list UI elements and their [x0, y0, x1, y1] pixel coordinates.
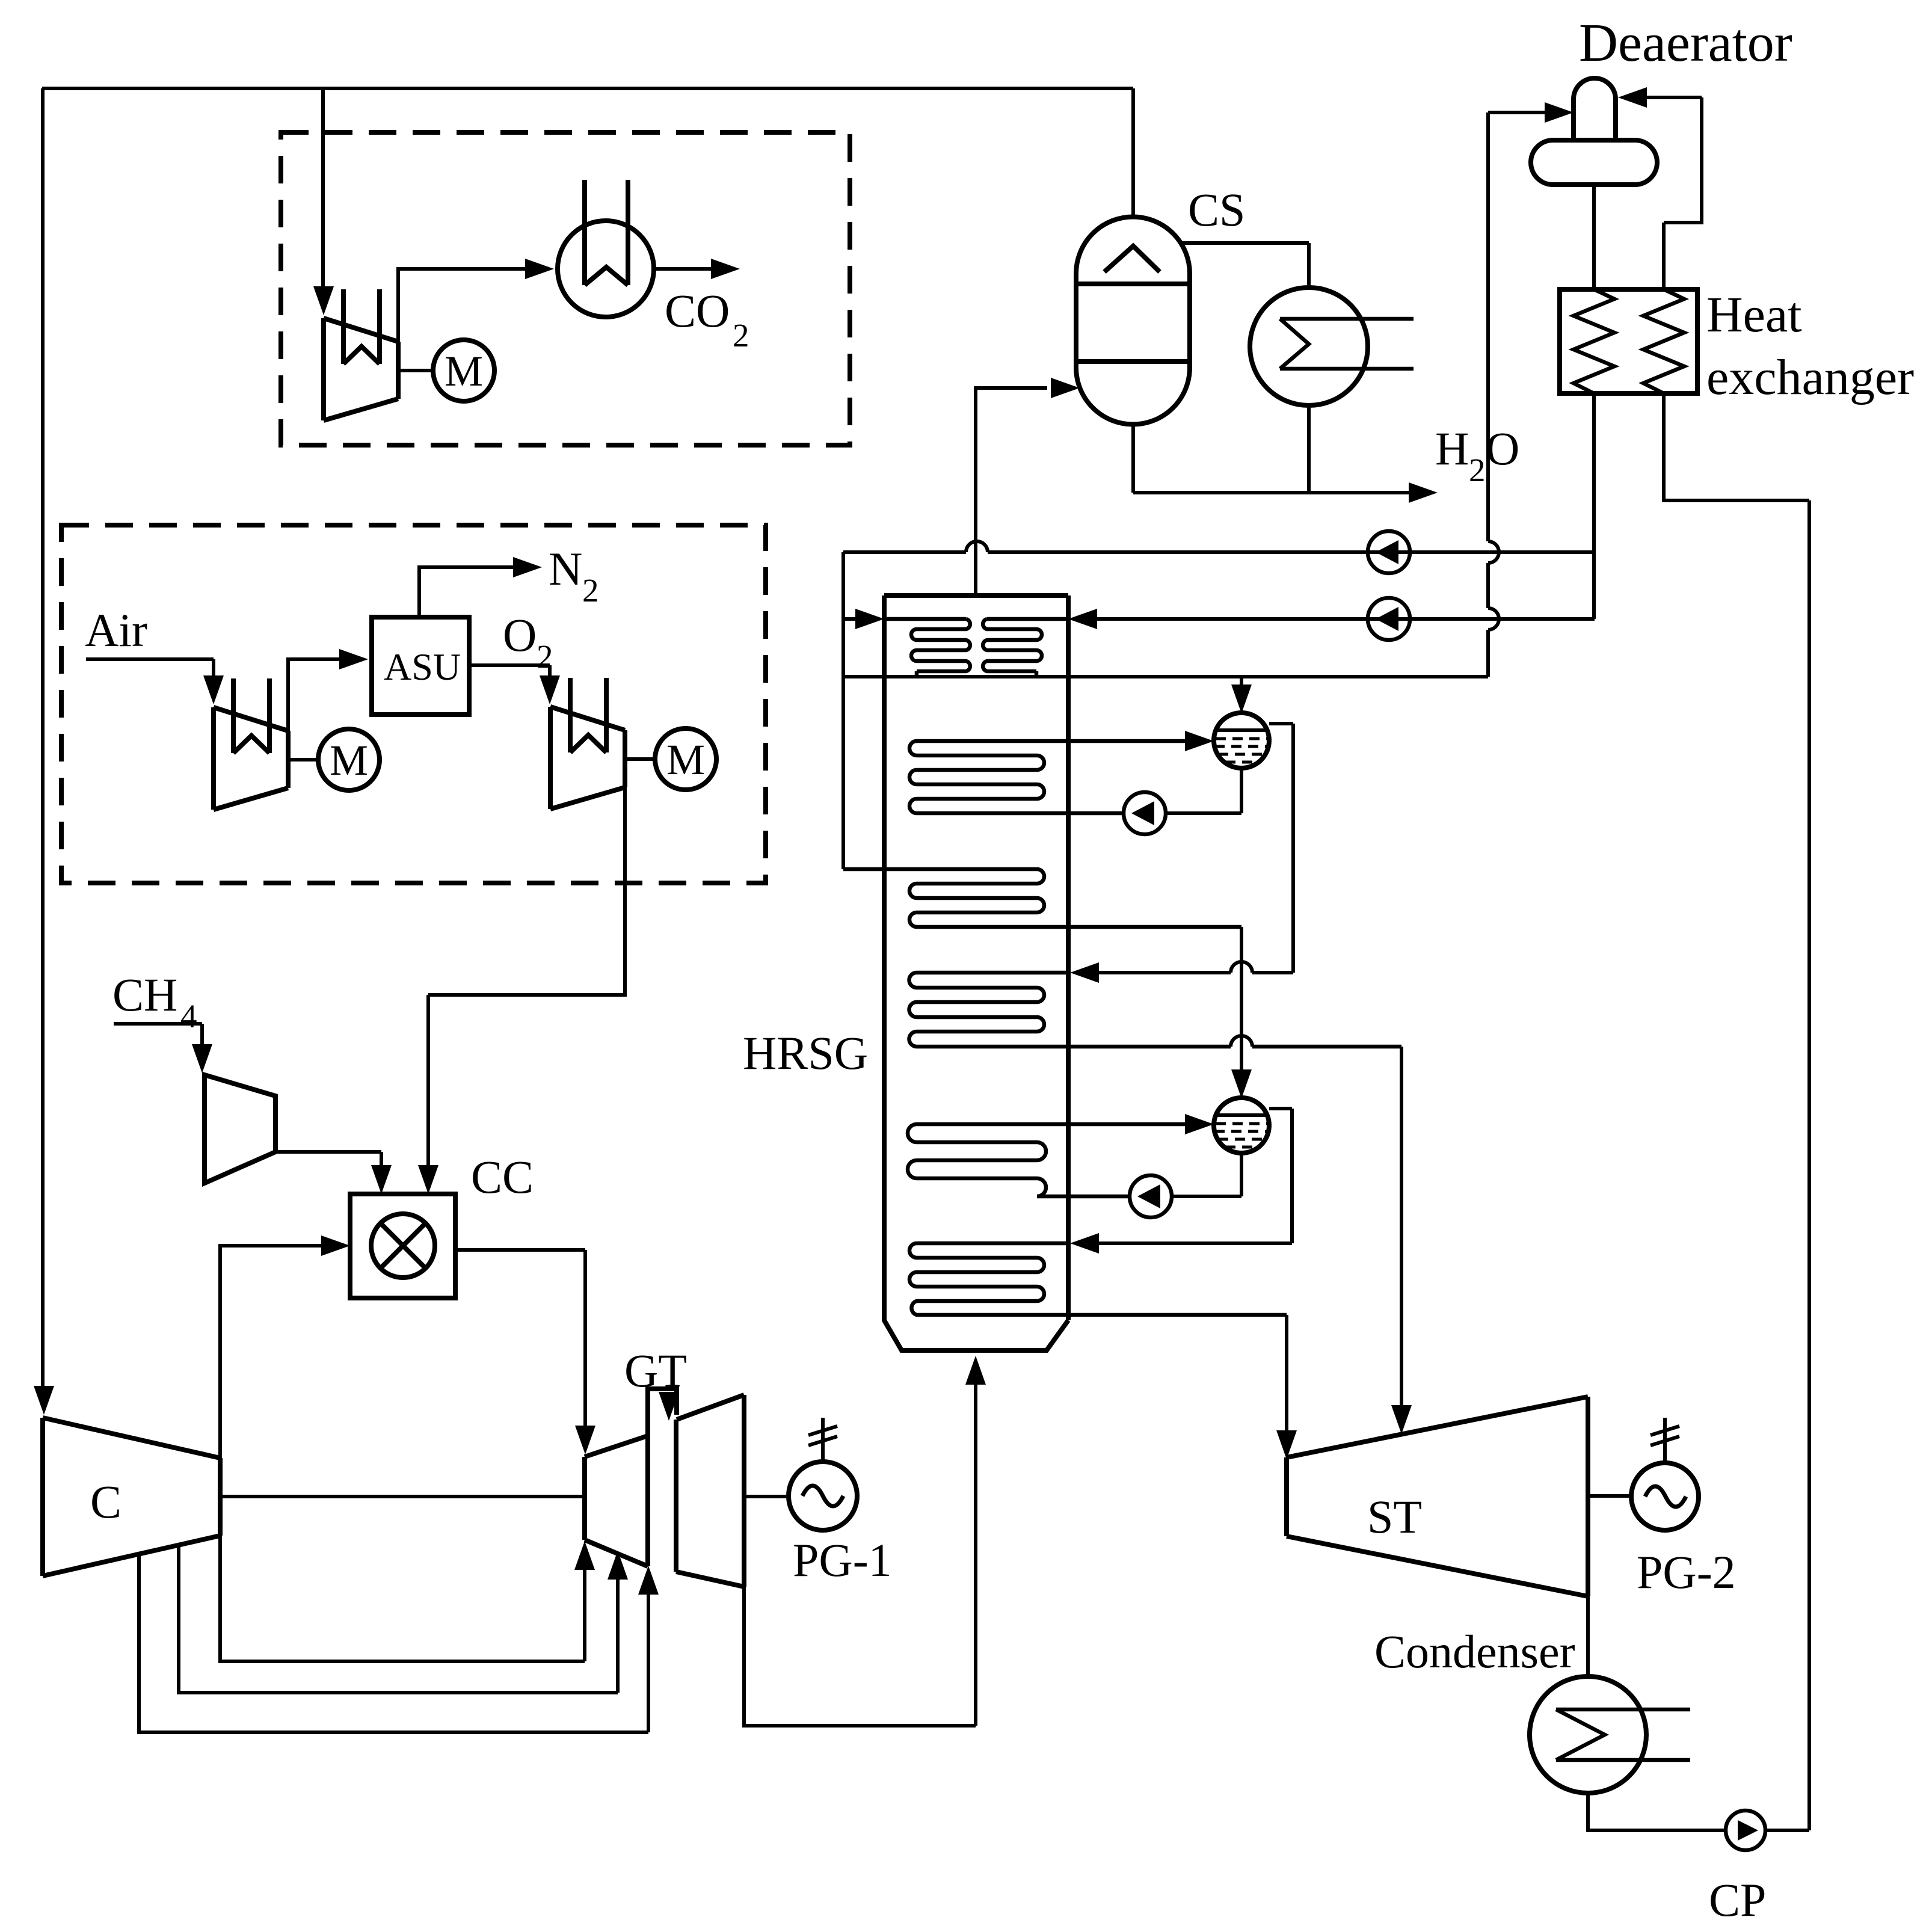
turbine GT crossover neck: [648, 1389, 677, 1436]
pump LP circulation: [1130, 1175, 1172, 1217]
cooler CS condensing cooler: [1250, 288, 1368, 405]
shaft ST to PG-2: [1588, 1494, 1631, 1498]
chevron CS demister: [1104, 246, 1160, 272]
coil LP evaporator: [908, 1124, 1185, 1196]
wire LP drum downcomer: [1172, 1153, 1241, 1196]
svg-text:M: M: [666, 736, 705, 784]
boiler HRSG shell: [884, 595, 1068, 1350]
drum HP steam drum: [1214, 713, 1269, 768]
wire steam line to ST: [1400, 1047, 1403, 1405]
svg-text:2: 2: [1469, 452, 1486, 488]
svg-text:ASU: ASU: [384, 645, 461, 688]
wire HX outlet to HRSG inlet left: [843, 617, 855, 621]
wire condensate riser to heat exchanger: [1765, 500, 1809, 1830]
wire HX right coil outlet to condensate riser: [1664, 393, 1809, 500]
wire HP drum downcomer: [1166, 768, 1241, 813]
heat exchanger box: [1560, 289, 1697, 393]
wire GT cooling line 3 from C: [139, 1554, 648, 1732]
compressor O2: [550, 707, 625, 809]
coil LP superheater: [909, 1243, 1287, 1315]
wire O2 compressor outlet to CC: [428, 787, 625, 1165]
generator PG-2: [1631, 1463, 1699, 1530]
turbine ST: [1287, 1397, 1588, 1596]
svg-text:2: 2: [733, 317, 749, 354]
wire GT cooling line 2 from C: [179, 1545, 618, 1693]
wire CO2 product outlet: [654, 267, 711, 271]
wire top recycle header: [42, 87, 1133, 90]
compressor C: [43, 1418, 220, 1576]
compressor fuel: [205, 1075, 275, 1183]
motor M of air compressor: [318, 729, 380, 790]
pump feedwater lower: [1368, 598, 1410, 640]
shaft CO2 compressor: [398, 369, 433, 372]
wire economizer feed drop: [841, 552, 845, 869]
motor M of O2 compressor: [655, 728, 716, 790]
wire air inlet: [86, 659, 214, 677]
hump on steam line to ST: [1231, 1036, 1252, 1047]
coil heat exchanger right: [1643, 289, 1684, 393]
dashed box ASU unit: [61, 525, 766, 883]
wire LP drum steam outlet to LP superheater: [1099, 1109, 1292, 1243]
svg-text:CO: CO: [665, 285, 730, 337]
svg-text:N: N: [549, 543, 582, 595]
wire HP drum steam outlet to LP superheater: [1099, 724, 1293, 973]
svg-text:PG-1: PG-1: [793, 1534, 892, 1586]
wire LP drum feed: [1240, 927, 1243, 1076]
svg-text:Condenser: Condenser: [1374, 1625, 1575, 1678]
cooler CO2 gas cooler: [558, 221, 654, 317]
condenser: [1530, 1676, 1646, 1793]
wire deaerator feed riser: [1486, 112, 1490, 677]
wire HX left coil outlet down: [1594, 393, 1595, 619]
svg-text:Deaerator: Deaerator: [1579, 13, 1792, 73]
wire HP drum feed from header: [1240, 677, 1243, 686]
wire N2 outlet: [419, 567, 513, 617]
shaft GT to PG-1: [744, 1495, 789, 1498]
wire HX outlet to HRSG inlet right: [1097, 617, 1595, 621]
hop deaerator riser over lower line: [1488, 608, 1499, 630]
shaft O2 compressor: [625, 757, 655, 761]
wire CS cooler drain: [1307, 405, 1311, 493]
vessel CS separator: [1076, 217, 1190, 424]
vessel deaerator: [1531, 140, 1657, 185]
svg-text:H: H: [1435, 422, 1469, 475]
turbine GT low pressure section: [676, 1395, 744, 1587]
wire branch to CO2 compressor: [321, 88, 325, 288]
svg-text:M: M: [445, 347, 483, 395]
wire heat exchanger right coil top jog: [1664, 97, 1702, 289]
wire deaerator feed header: [843, 675, 1488, 678]
wire compressor C discharge to CC: [220, 1246, 321, 1458]
wire CS top recycle riser: [1131, 88, 1135, 217]
svg-text:ST: ST: [1367, 1491, 1422, 1543]
wire GT exhaust to HRSG: [744, 1385, 976, 1726]
coil economizer left bank: [884, 619, 970, 677]
wire CC outlet to GT: [455, 1250, 585, 1426]
coil heat exchanger left: [1574, 289, 1614, 393]
coil HP evaporator: [909, 741, 1185, 813]
wire O2 line to O2 compressor: [469, 665, 550, 677]
wire left recycle downcomer to compressor C: [41, 88, 45, 1387]
svg-text:Air: Air: [85, 604, 147, 656]
wire fuel line to CC: [275, 1152, 381, 1165]
svg-text:CH: CH: [112, 968, 177, 1021]
generator PG-1: [789, 1462, 857, 1530]
coil reheater: [909, 973, 1402, 1047]
wire CH4 inlet: [114, 1024, 202, 1046]
svg-text:CC: CC: [471, 1151, 534, 1203]
wire deaerator drain to heat exchanger: [1592, 185, 1596, 289]
svg-text:CP: CP: [1709, 1874, 1766, 1926]
combustion chamber CC: [350, 1194, 455, 1298]
svg-text:C: C: [90, 1475, 122, 1528]
vessel deaerator neck: [1574, 78, 1616, 140]
shaft C to GT: [220, 1495, 585, 1498]
svg-text:HRSG: HRSG: [743, 1027, 868, 1079]
wire heated condensate to deaerator right: [1647, 96, 1702, 99]
svg-text:CS: CS: [1188, 183, 1245, 236]
wire H2O drain line: [1133, 424, 1409, 493]
wire ST exhaust to condenser: [1586, 1596, 1590, 1676]
wire condensate to deaerator left: [1488, 111, 1545, 114]
wire GT cooling line 1 from C: [220, 1536, 585, 1661]
dashed box CO2 compression unit: [281, 132, 850, 445]
hop deaerator riser over upper line: [1488, 541, 1499, 563]
shaft air compressor: [288, 758, 318, 761]
svg-text:Heat: Heat: [1706, 287, 1802, 343]
svg-text:2: 2: [582, 572, 599, 609]
motor M of CO2 compressor: [433, 340, 494, 401]
svg-text:exchanger: exchanger: [1706, 349, 1914, 405]
turbine GT high pressure section: [585, 1436, 648, 1566]
svg-text:M: M: [330, 736, 368, 784]
wire LP steam to ST: [1285, 1315, 1288, 1430]
svg-text:PG-2: PG-2: [1637, 1546, 1736, 1598]
pump HP circulation: [1124, 792, 1166, 834]
wire condensate to CP: [1588, 1793, 1726, 1830]
wire air compressor outlet to ASU: [288, 659, 339, 731]
coil intermediate economizer: [843, 869, 1241, 927]
wire CO2 compressor outlet: [398, 269, 525, 342]
svg-text:4: 4: [180, 998, 197, 1035]
unit ASU box: [372, 617, 469, 715]
pump CP: [1726, 1811, 1765, 1850]
hump on drum1 steam line: [1231, 962, 1252, 973]
drum LP steam drum: [1214, 1098, 1269, 1153]
wire CS gas outlet to cooler: [1181, 243, 1309, 288]
compressor air: [214, 707, 288, 810]
svg-text:GT: GT: [624, 1344, 687, 1397]
coil economizer right bank: [983, 619, 1068, 677]
wire HRSG flue outlet to CS: [976, 388, 1047, 595]
svg-text:O: O: [503, 609, 537, 661]
svg-text:O: O: [1486, 422, 1519, 475]
wire feedwater return line upper: [843, 550, 1595, 554]
pump feedwater upper: [1368, 531, 1410, 573]
hump on upper feedwater line: [966, 541, 988, 552]
compressor CO2: [324, 318, 398, 420]
